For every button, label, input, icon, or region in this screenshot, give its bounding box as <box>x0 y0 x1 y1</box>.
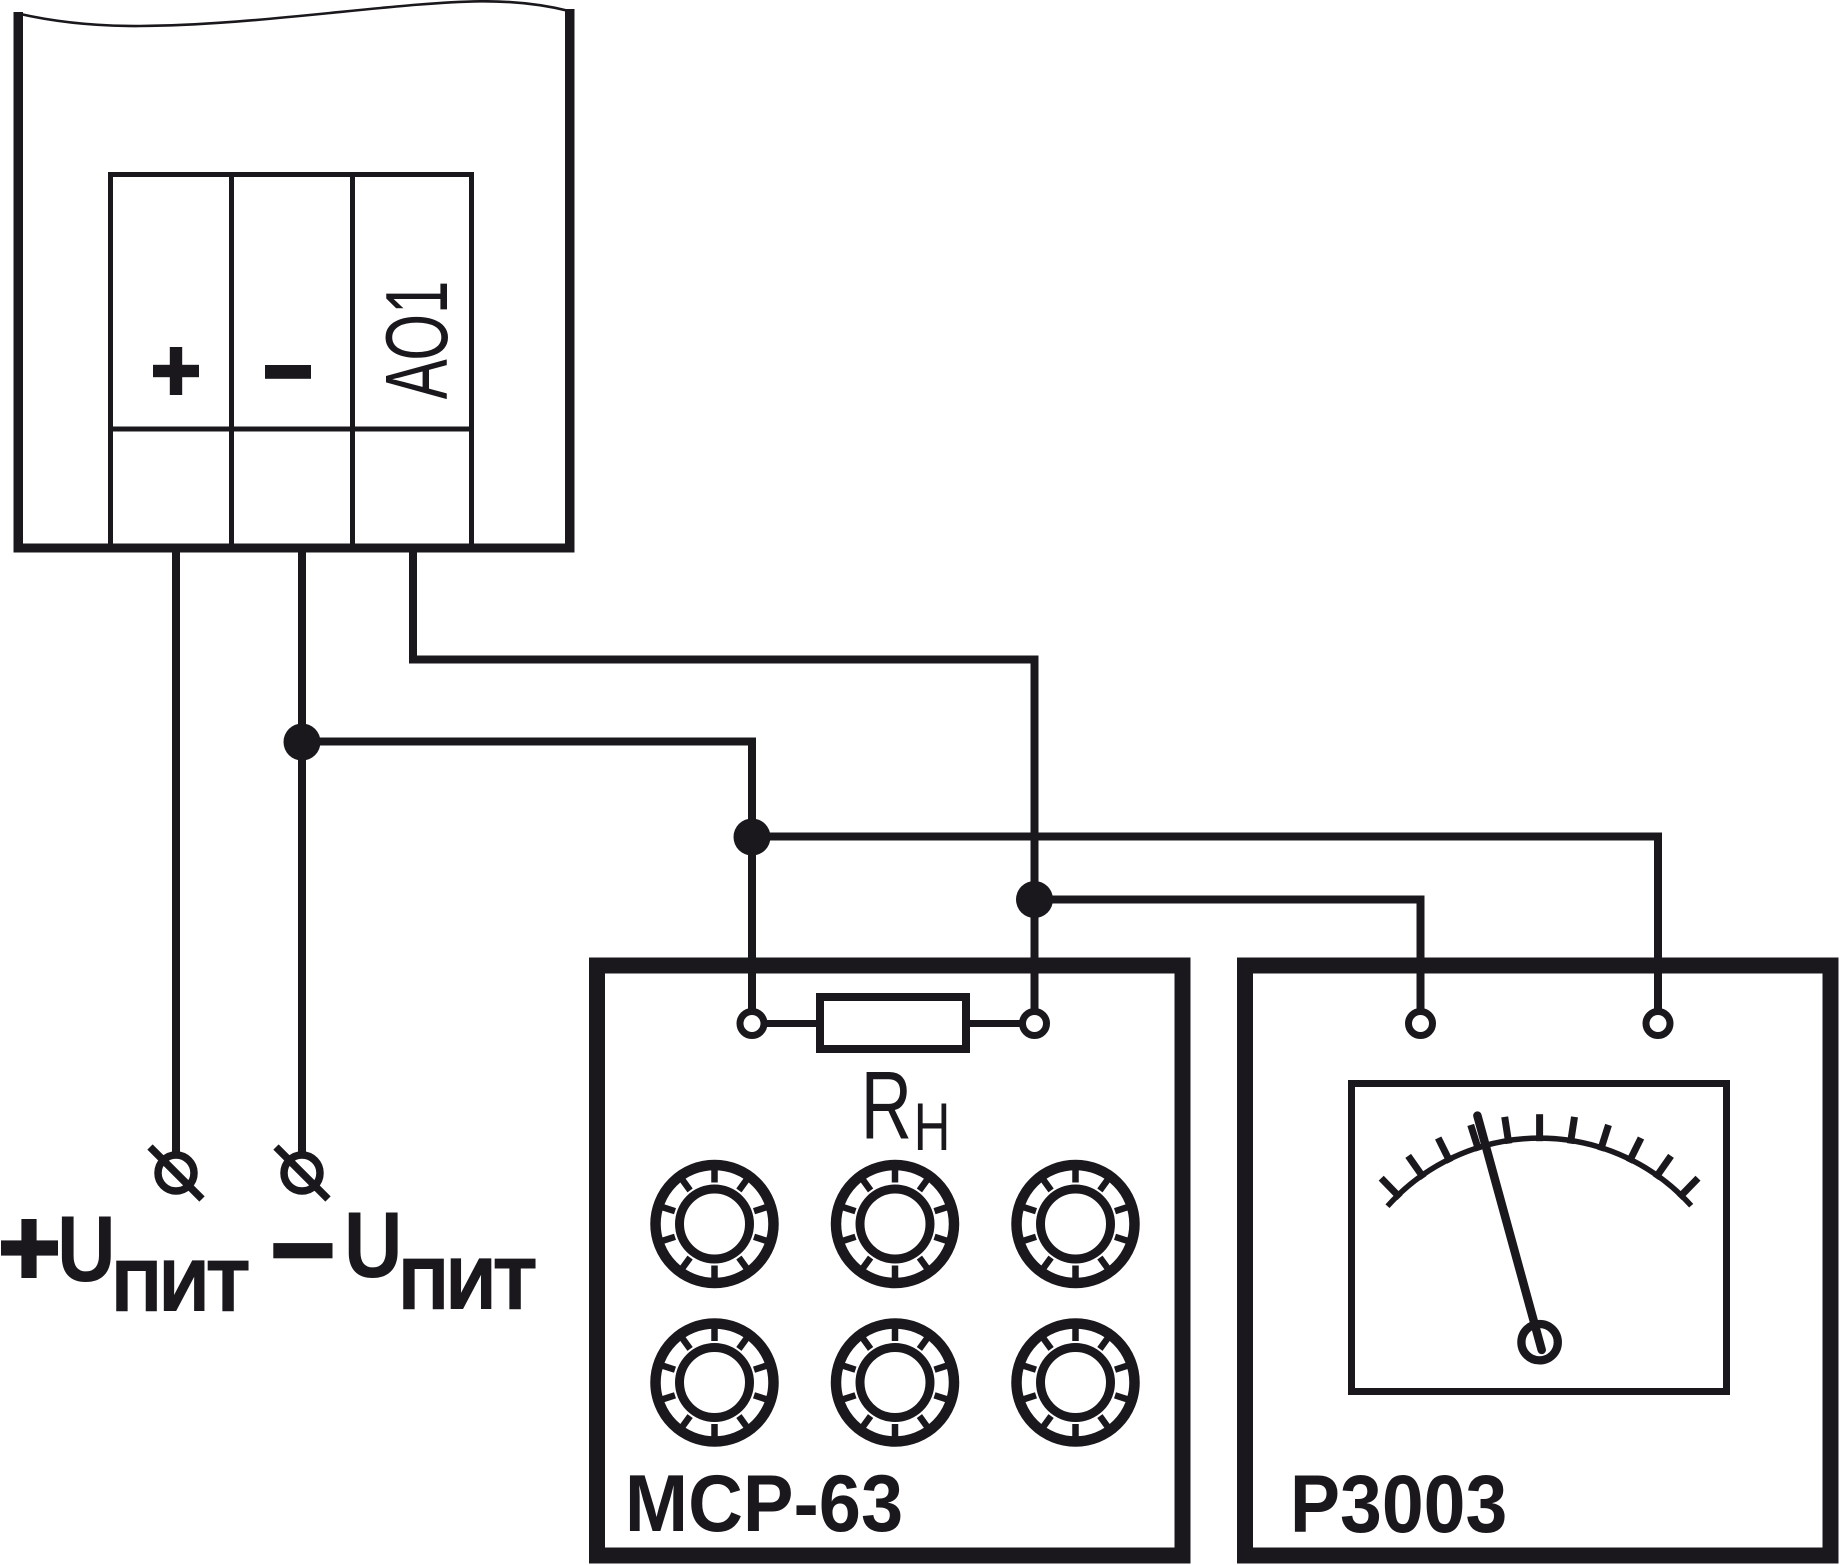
svg-text:ПИТ: ПИТ <box>113 1247 249 1325</box>
svg-text:R: R <box>861 1051 912 1159</box>
svg-text:Р3003: Р3003 <box>1290 1458 1507 1550</box>
svg-text:H: H <box>914 1089 951 1165</box>
svg-text:U: U <box>344 1193 403 1298</box>
svg-text:МСР-63: МСР-63 <box>625 1458 903 1549</box>
svg-text:АО1: АО1 <box>369 281 467 400</box>
svg-text:U: U <box>57 1197 116 1302</box>
svg-text:ПИТ: ПИТ <box>400 1245 536 1323</box>
